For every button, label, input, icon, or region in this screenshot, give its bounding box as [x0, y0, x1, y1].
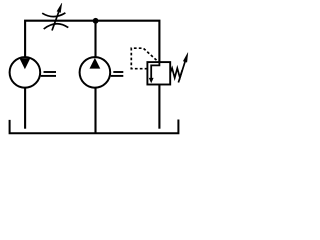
relief valve V1: internal flow path: [149, 62, 160, 83]
pump P1: flow triangle (points up): [90, 58, 101, 69]
wire: pump P1 riser: [94, 21, 96, 58]
variable throttle RV1: adjustment arrow: [52, 3, 62, 31]
hydraulic motor M1: flow triangle (points down): [20, 58, 31, 69]
relief valve V1: body square: [147, 62, 170, 84]
variable throttle RV1: upper arc: [42, 13, 65, 17]
relief valve V1: spring adjustment arrow: [178, 53, 188, 83]
wire: pump P1 suction to tank: [94, 87, 96, 133]
pilot line (dashed) to valve: [131, 48, 158, 68]
pump P1: body circle: [80, 57, 111, 88]
wire: relief valve V1 to tank: [158, 85, 160, 129]
wire: top header line: [25, 21, 159, 62]
hydraulic motor M1: body circle: [10, 57, 41, 88]
relief valve V1: spring: [170, 68, 182, 78]
variable throttle RV1: lower arc: [44, 24, 69, 29]
wire: motor M1 to tank: [24, 87, 26, 129]
node J1 (junction dot): [93, 18, 99, 24]
pump P1: drive shaft: [111, 72, 124, 76]
tank T1: [10, 120, 179, 134]
hydraulic motor M1: drive shaft: [41, 72, 56, 76]
